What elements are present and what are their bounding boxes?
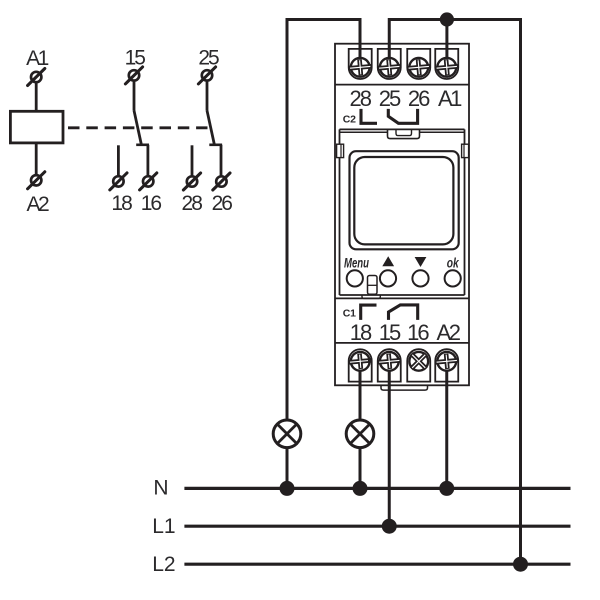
svg-text:C1: C1 <box>343 308 356 320</box>
junction dot N lamp E1 <box>280 481 295 496</box>
display window <box>354 157 453 244</box>
terminal pocket 18 (bottom) <box>349 349 372 381</box>
svg-text:26: 26 <box>212 192 233 215</box>
wire coil to A2 <box>35 143 38 175</box>
svg-text:28: 28 <box>182 192 203 215</box>
junction dot top A1 <box>440 12 454 26</box>
wire N rail to lamp E1 branch, to terminal 28 <box>287 20 360 489</box>
screw terminal 15 <box>377 351 401 372</box>
terminal 28 <box>183 173 200 190</box>
wire 25 to L2 <box>389 20 520 565</box>
wire 15 stem <box>133 81 136 111</box>
junction dot N A2 <box>439 481 454 496</box>
cover bottom body line <box>335 297 469 299</box>
terminal A2 <box>28 172 45 189</box>
svg-text:C2: C2 <box>343 114 356 126</box>
wire 25 stem <box>206 81 209 111</box>
wire 15 to L1 <box>388 367 391 526</box>
terminal pocket A1 (top) <box>435 49 458 79</box>
top terminal block divider <box>335 84 469 86</box>
terminal 25 <box>198 67 215 84</box>
cover right side <box>464 129 466 295</box>
wire to 26 <box>220 145 223 176</box>
DIN rail tab <box>381 385 428 390</box>
svg-text:ok: ok <box>447 256 460 271</box>
screw terminal A2 <box>435 351 459 372</box>
terminal 26 <box>213 173 230 190</box>
lamp E2 <box>346 420 374 448</box>
svg-text:26: 26 <box>408 86 430 111</box>
wire A1 to coil <box>35 83 38 112</box>
right clip <box>462 144 469 157</box>
screw terminal 26 <box>407 57 431 78</box>
wire 18 to lamp E2 to N <box>359 367 362 488</box>
terminal pocket 15 (bottom) <box>378 349 401 381</box>
switch blade 15-16 <box>134 111 141 144</box>
cover top inner line <box>340 131 465 133</box>
svg-text:15: 15 <box>379 320 401 345</box>
button Menu <box>347 270 363 286</box>
cover left side <box>339 129 341 295</box>
terminal pocket 26 (top) <box>407 49 430 79</box>
wire to 16 <box>146 145 149 176</box>
relay coil A1/A2 <box>10 111 63 143</box>
down arrow <box>415 257 427 267</box>
svg-text:A2: A2 <box>26 193 49 216</box>
svg-text:L1: L1 <box>152 515 175 538</box>
terminal pocket 28 (top) <box>349 49 372 79</box>
terminal 16 <box>140 173 157 190</box>
svg-text:A1: A1 <box>26 47 49 70</box>
line N <box>184 487 570 490</box>
line L1 <box>184 525 570 528</box>
screw terminal A1 <box>435 57 459 78</box>
wire junction to A1 <box>445 20 448 65</box>
open contact stub 18 <box>117 145 120 176</box>
timer device body <box>335 44 469 386</box>
screw terminal 25 <box>377 57 401 78</box>
screw terminal 16 (cross) <box>409 352 428 371</box>
line L2 <box>184 563 570 566</box>
svg-text:A2: A2 <box>437 320 461 345</box>
terminal 15 <box>125 67 142 84</box>
up arrow <box>382 256 394 266</box>
open contact stub 28 <box>191 145 194 176</box>
lamp E1 <box>273 420 301 448</box>
screw terminal 18 <box>348 351 372 372</box>
svg-text:28: 28 <box>349 86 371 111</box>
cover bottom inner line <box>340 294 465 296</box>
left clip <box>337 144 344 157</box>
display bezel <box>350 151 459 249</box>
button up <box>380 270 396 286</box>
switch blade 25-26 <box>207 111 214 144</box>
dashed mechanical link <box>68 126 208 129</box>
bottom terminal block divider <box>335 342 469 344</box>
svg-text:N: N <box>153 477 168 500</box>
C1 contact mark 18 <box>361 305 377 320</box>
svg-text:25: 25 <box>379 86 401 111</box>
terminal pocket 16 (bottom) <box>407 349 430 381</box>
cover bottom tab <box>362 295 380 298</box>
cover top edge <box>340 128 465 130</box>
svg-text:18: 18 <box>350 320 372 345</box>
svg-text:16: 16 <box>407 320 429 345</box>
terminal pocket A2 (bottom) <box>435 349 458 381</box>
svg-text:18: 18 <box>111 192 132 215</box>
button ok <box>445 270 461 286</box>
screw terminal 28 <box>348 57 372 78</box>
contact tick 16 <box>136 144 149 147</box>
C1 contact mark 15-16 <box>389 305 418 320</box>
junction dot N lamp E2 <box>353 481 368 496</box>
svg-text:Menu: Menu <box>344 255 370 270</box>
junction dot L1 <box>382 519 397 534</box>
terminal A1 <box>28 69 45 86</box>
cover top tab <box>388 129 420 138</box>
contact tick 26 <box>209 144 222 147</box>
button down <box>412 270 428 286</box>
C2 contact mark 28 <box>361 109 377 123</box>
svg-text:A1: A1 <box>438 86 462 111</box>
cover top tab inner <box>396 129 412 135</box>
terminal 18 <box>110 173 127 190</box>
slide switch <box>368 276 378 295</box>
wire A2 to N <box>445 367 448 488</box>
svg-text:L2: L2 <box>152 553 175 576</box>
svg-text:16: 16 <box>141 192 162 215</box>
terminal pocket 25 (top) <box>378 49 401 79</box>
C2 contact mark 25-26 <box>388 109 417 123</box>
junction dot L2 <box>513 557 528 572</box>
